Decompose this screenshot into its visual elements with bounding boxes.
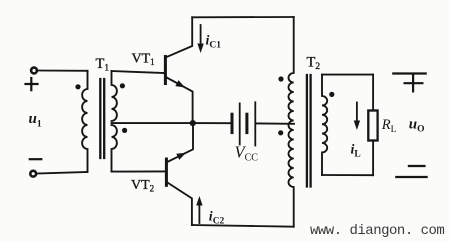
transformer T2 core: [307, 75, 311, 187]
VT2 emitter arrow: [176, 150, 187, 160]
transistor VT1 collector lead: [166, 17, 192, 57]
wire: T1 secondary bottom to VT2 base: [112, 170, 166, 172]
T2 phase dot primary bottom: [278, 130, 283, 135]
current arrow iL: [354, 103, 360, 131]
node junction of emitters and center-tap wire: [190, 120, 196, 126]
T1 phase dot primary: [75, 84, 80, 89]
T2 phase dot primary top: [278, 76, 283, 81]
T2 phase dot secondary: [329, 92, 334, 97]
input terminal + (top-left circle): [31, 68, 37, 74]
transformer T1 core: [100, 79, 104, 158]
wire: T2 secondary top to load: [322, 74, 373, 76]
transistor VT1 base bar: [164, 57, 167, 84]
transformer T1 secondary lower half: [112, 125, 117, 172]
battery VCC plate long 1: [239, 103, 241, 144]
wire: battery to T2 center tap: [257, 122, 295, 124]
transformer T1 primary winding: [82, 71, 87, 172]
current arrow iC2: [196, 196, 202, 223]
input terminal - (bottom-left circle): [30, 171, 36, 177]
wire: load bottom to T2 secondary: [322, 174, 373, 176]
T1 phase dot secondary bottom: [122, 128, 127, 133]
minus polarity mark at input: [30, 158, 42, 160]
transistor VT2 base bar: [165, 159, 168, 185]
T1 phase dot secondary top: [120, 83, 125, 88]
VT1 emitter arrow: [175, 80, 186, 90]
output polarity bottom bar: [396, 176, 426, 178]
wire: - terminal to T1 primary bottom: [36, 172, 88, 174]
transistor VT2 emitter lead: [167, 123, 193, 162]
battery VCC plate short 1: [231, 114, 234, 132]
top rail wire: [192, 16, 294, 18]
svg-text:www. diangon. com: www. diangon. com: [310, 223, 444, 239]
output plus mark: [405, 75, 423, 92]
transformer T2 secondary winding: [322, 75, 327, 175]
transistor VT2 collector lead: [168, 183, 192, 225]
bottom rail wire: [192, 225, 294, 227]
battery VCC plate short 2: [245, 114, 248, 132]
wire: load right vertical top: [372, 75, 374, 111]
transistor VT1 emitter lead: [167, 78, 193, 124]
output polarity top bar: [393, 72, 425, 74]
output minus mark: [409, 165, 425, 167]
wire: junction to battery: [193, 122, 230, 124]
wire: load right vertical bottom: [372, 141, 374, 176]
wire: T1 center tap to junction: [112, 122, 193, 124]
battery VCC plate long 2: [254, 102, 256, 145]
wire: + terminal to T1 primary top: [37, 70, 88, 72]
current arrow iC1: [197, 25, 203, 53]
resistor RL: [368, 111, 377, 141]
transformer T2 primary winding: [289, 17, 294, 227]
wire: T1 secondary top to VT1 base: [112, 71, 165, 73]
transformer T1 secondary upper half: [112, 71, 117, 121]
plus polarity mark at input: [26, 78, 38, 90]
